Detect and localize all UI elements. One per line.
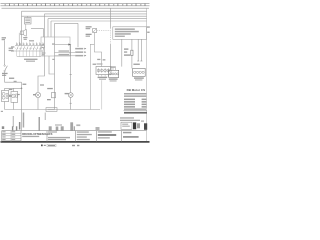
TDL labels xyxy=(124,48,130,55)
motor M1 xyxy=(2,91,9,102)
wire drop x44.5 xyxy=(44,14,46,56)
stamp area texts xyxy=(120,117,144,121)
X-label under relay xyxy=(24,59,38,62)
terminal box on bus xyxy=(46,108,57,112)
title block row lines left xyxy=(2,132,21,134)
title block small cell texts xyxy=(2,131,15,140)
wire x141.4 xyxy=(140,39,142,61)
junction label x54.5 xyxy=(52,59,54,60)
wire from switch down and right xyxy=(5,72,22,83)
svg-text:DB Motor CS: DB Motor CS xyxy=(127,88,146,92)
wire from S2 down xyxy=(94,33,101,67)
table rows xyxy=(124,99,146,108)
sheet right border xyxy=(146,8,148,141)
wire x121.8 xyxy=(121,39,123,66)
wire from horn xyxy=(31,29,44,37)
left wire xyxy=(4,41,6,66)
motor M2 feed xyxy=(13,88,15,91)
key wire labels xyxy=(97,59,100,60)
contact top stubs xyxy=(17,42,43,45)
connector X1 bottom label xyxy=(109,78,118,79)
key column wire xyxy=(109,8,111,28)
terminal box text xyxy=(48,109,56,110)
frame top scale band line 2 xyxy=(1,5,150,7)
wire conn to bottom bus xyxy=(101,80,103,109)
bus wire B3 xyxy=(22,15,147,17)
wire number columns above title block xyxy=(21,110,23,131)
cell6 texts xyxy=(123,132,139,138)
arrow wire in relay box xyxy=(55,44,69,46)
linkage dashed xyxy=(97,29,111,31)
switch label xyxy=(2,73,8,76)
signal ref label 1 xyxy=(75,48,86,50)
contact linkage dashed xyxy=(15,47,45,49)
signal ref label 2 xyxy=(75,51,86,53)
horn label xyxy=(23,37,27,40)
title block top xyxy=(2,130,147,132)
wire label row 1 xyxy=(59,50,70,51)
wire label above xyxy=(9,78,17,82)
dark bar xyxy=(133,122,136,129)
collector wire xyxy=(17,56,41,58)
wire drop x48 xyxy=(47,19,49,37)
footer framed text xyxy=(47,144,56,147)
key column dashed xyxy=(109,28,111,44)
key switch S2 xyxy=(93,29,97,33)
table bottom line xyxy=(124,109,146,110)
arrowhead xyxy=(68,44,71,46)
footer mark square xyxy=(41,145,43,147)
cell4 texts xyxy=(77,131,92,140)
motor M1 brush marks xyxy=(6,93,8,95)
cell3 texts xyxy=(48,131,70,140)
relay left labels xyxy=(11,46,14,51)
bus wire B4 xyxy=(48,18,147,20)
motor M2 marks xyxy=(12,95,14,97)
margin labels right xyxy=(147,26,150,33)
relay contact row xyxy=(15,45,45,47)
wire corner x90.3 xyxy=(90,44,94,109)
note box xyxy=(113,27,147,40)
wire B6 short xyxy=(55,22,79,24)
horn symbol xyxy=(21,31,24,35)
connector X0B label xyxy=(93,64,96,65)
relay module box xyxy=(41,37,70,56)
wire left of horn xyxy=(18,33,20,46)
box C text lines xyxy=(25,19,30,23)
bus wire B5 xyxy=(51,20,147,22)
key switch S2 labels xyxy=(86,26,92,36)
marks right of dark bar xyxy=(137,123,140,128)
footer right marks xyxy=(72,145,75,146)
signal ref label 3 xyxy=(75,55,86,57)
label on x44.5 xyxy=(40,84,44,85)
inner relay marks xyxy=(42,43,55,55)
left wire mid labels xyxy=(9,48,13,52)
dark patch right xyxy=(144,123,147,130)
footer tiny text xyxy=(44,145,46,146)
motor labels xyxy=(9,89,20,97)
sheet top border xyxy=(2,7,150,9)
connector X0B bottom label xyxy=(98,77,108,78)
connector X2 xyxy=(133,68,146,76)
title block left border xyxy=(1,131,3,142)
stamp box xyxy=(121,122,132,129)
wire jog to long wire x54.5 xyxy=(49,56,55,74)
lamp E1 label xyxy=(33,94,36,95)
bus wire B2 xyxy=(45,13,147,15)
control unit box C with text xyxy=(25,18,32,25)
cell5 texts xyxy=(98,131,116,138)
wire x138.2 xyxy=(137,39,139,61)
key column lower xyxy=(109,44,111,70)
bottom bus left label xyxy=(1,111,3,112)
connector X2 bottom label xyxy=(134,77,144,78)
switch S1 xyxy=(4,65,5,66)
lamp E2 label xyxy=(65,93,69,94)
contact slashes xyxy=(17,46,45,50)
connector X2 (right) labels xyxy=(133,64,139,65)
connector X1 (left) label xyxy=(111,66,116,67)
K1 right label xyxy=(29,40,34,41)
junction dot xyxy=(21,88,23,90)
long wire x54.5 xyxy=(54,23,56,109)
motor M1 feed xyxy=(4,88,6,90)
tick on wire xyxy=(70,102,72,104)
wire stub box C to horn xyxy=(25,24,27,30)
wire stub box C to bus B3 xyxy=(27,16,29,17)
signal label lines xyxy=(55,51,76,53)
branch wire y88.3 xyxy=(5,87,22,89)
contact pin numbers xyxy=(16,44,44,45)
motor M2 xyxy=(11,92,18,103)
fuse F1 xyxy=(131,39,133,50)
contact bottom stubs xyxy=(17,51,43,57)
lamp E2 xyxy=(70,45,72,93)
sheet bottom thick border xyxy=(1,141,150,143)
frame column ticks xyxy=(10,3,146,6)
frame top scale band line 1 xyxy=(1,3,150,5)
component 8M5 xyxy=(52,93,56,98)
+B drop label xyxy=(23,84,27,85)
wire drop x78 xyxy=(77,23,79,47)
title block dividers xyxy=(10,131,12,142)
table header rows xyxy=(124,93,146,97)
wire drop x21.5 xyxy=(21,11,23,45)
connector X0B pin stubs xyxy=(99,75,109,77)
wire label row 2 xyxy=(59,54,70,55)
frame column numbers xyxy=(5,4,142,6)
bottom bus wire xyxy=(5,109,100,111)
main drop x21.5 xyxy=(21,82,23,109)
wire jog to lamp E1 xyxy=(38,56,45,93)
left wire top label xyxy=(2,37,6,40)
connector X0B xyxy=(96,67,111,75)
connector X1 xyxy=(109,70,119,77)
wire drop x51 xyxy=(50,21,52,37)
bus wire B1 xyxy=(22,10,147,12)
